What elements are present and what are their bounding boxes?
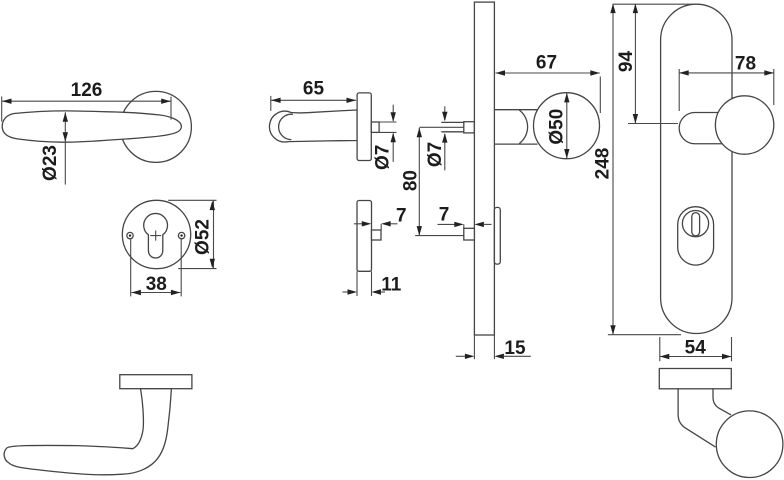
svg-text:94: 94 <box>616 51 637 73</box>
svg-text:7: 7 <box>396 206 407 227</box>
dim 15 left arrow <box>465 354 475 359</box>
dim 67 left arrow <box>496 70 506 75</box>
dim d52 down arrow <box>210 259 215 269</box>
dim 126 line <box>2 100 171 102</box>
keyhole slot <box>692 213 700 236</box>
dim 11 left arrow <box>348 289 358 294</box>
lever rose bar <box>120 375 192 389</box>
spindle stub D <box>371 122 379 132</box>
dim 7 E left arrow <box>362 221 372 226</box>
dim 7 F stub extension <box>463 224 465 228</box>
dim 67 right arrow <box>590 70 600 75</box>
dim 54 left arrow <box>660 354 670 359</box>
svg-text:67: 67 <box>536 53 557 74</box>
dim 15 right arrow <box>494 354 504 359</box>
grip side <box>269 110 357 142</box>
dim d7 F upper line <box>444 106 446 120</box>
svg-text:80: 80 <box>401 170 422 191</box>
dim 67 line <box>496 72 600 74</box>
svg-text:78: 78 <box>735 54 756 75</box>
dim 78 left extension <box>678 69 680 111</box>
svg-text:Ø7: Ø7 <box>425 142 446 167</box>
dim 80 bottom extension <box>415 235 464 237</box>
dim 65 left arrow <box>271 98 281 103</box>
svg-text:248: 248 <box>593 148 614 180</box>
svg-text:Ø23: Ø23 <box>40 145 61 181</box>
backplate side strip <box>474 2 494 335</box>
dim d7 F up arrow <box>442 133 447 143</box>
grip end inner arc <box>279 114 293 139</box>
euro profile cylinder hole <box>144 213 168 258</box>
dim 80 up arrow <box>417 128 422 138</box>
dim 54 left extension <box>659 337 661 361</box>
dim 15 left strip extension <box>473 335 475 359</box>
dim 126 left arrow <box>2 99 12 104</box>
rose side rect <box>357 93 371 161</box>
dim 7 E right line <box>390 223 398 225</box>
dim 7 E stub extension <box>380 224 382 230</box>
dim d7 F down arrow <box>442 112 447 122</box>
dim 126 left extension <box>1 97 3 122</box>
dim d52 line <box>213 201 215 269</box>
dim 65 line <box>271 99 356 101</box>
dim 248 line <box>612 4 614 335</box>
dim 7 E right arrow <box>381 221 391 226</box>
dim 15 right line <box>503 355 531 357</box>
svg-text:15: 15 <box>504 338 526 359</box>
dim 78 right arrow <box>764 70 774 75</box>
spindle rod <box>441 122 464 131</box>
lever body perspective <box>4 389 171 475</box>
lever body <box>2 111 181 142</box>
dim 248 up arrow <box>610 4 615 14</box>
dim 126 right arrow <box>161 99 171 104</box>
knob rose bar <box>659 369 731 389</box>
knob neck side <box>494 110 537 144</box>
dim d23 up arrow <box>63 112 68 122</box>
spindle flange <box>464 122 475 133</box>
dim d7 D upper line <box>392 105 394 121</box>
dim 94 up arrow <box>633 4 638 14</box>
dim 94 down arrow <box>633 114 638 124</box>
dim 94 line <box>634 4 636 123</box>
dim d7 D up arrow <box>391 133 396 143</box>
dim d50 line <box>566 94 568 159</box>
knob neck perspective right edge <box>713 388 731 415</box>
dim 65 right arrow <box>347 98 357 103</box>
security cylinder oval <box>678 207 714 265</box>
cylinder bump side <box>494 207 500 264</box>
dim d52 bottom extension <box>178 268 216 270</box>
dim 80 top extension <box>419 126 464 128</box>
dim 80 line <box>418 128 420 235</box>
screw right <box>178 232 184 238</box>
dim d50 up arrow <box>564 93 569 103</box>
dim d52 top extension <box>168 199 216 201</box>
dim 78 line <box>679 72 774 74</box>
dim 248 bottom extension <box>608 334 681 336</box>
dim 7 F right line <box>483 223 491 225</box>
dim d7 D bottom extension <box>379 131 396 133</box>
dim d7 D top extension <box>379 121 396 123</box>
dim 248 down arrow <box>610 325 615 335</box>
rosette circle <box>122 200 190 268</box>
dim 54 right arrow <box>722 354 732 359</box>
svg-text:38: 38 <box>146 274 167 295</box>
cylinder stub E <box>372 230 382 240</box>
svg-text:7: 7 <box>439 205 450 226</box>
knob ball side <box>534 93 600 159</box>
dim 7 E left line <box>354 223 363 225</box>
svg-text:Ø7: Ø7 <box>372 145 393 170</box>
dim 54 line <box>660 356 732 358</box>
dim 94 bottom extension <box>628 123 678 125</box>
rose circle <box>120 91 191 162</box>
dim 67 right extension <box>599 77 601 114</box>
dim 38 left extension <box>130 239 132 296</box>
svg-text:65: 65 <box>303 79 325 100</box>
dim 7 F left line <box>438 223 456 225</box>
svg-text:126: 126 <box>71 80 103 101</box>
dim 11 left extension <box>356 271 358 296</box>
dim 11 left line <box>343 291 349 293</box>
center cross <box>150 231 161 241</box>
dim d7 D down arrow <box>391 112 396 122</box>
dim 11 right extension <box>371 271 373 296</box>
svg-text:Ø50: Ø50 <box>547 109 568 145</box>
screw left <box>127 232 133 238</box>
dim d7 F lower line <box>444 134 446 171</box>
knob neck perspective left edge <box>678 388 715 447</box>
dim 38 left arrow <box>131 290 141 295</box>
dim 38 line <box>131 292 180 294</box>
dim 248 top extension <box>613 3 693 5</box>
knob neck transition arc <box>519 110 527 144</box>
dim 7 F left arrow <box>454 222 464 227</box>
knob ball front <box>715 96 773 154</box>
dim 7 F right arrow <box>474 222 484 227</box>
dim 78 right extension <box>773 69 775 105</box>
dim d7 D lower line <box>392 134 394 162</box>
dim 38 right extension <box>180 239 182 296</box>
dim 65 left extension <box>270 96 272 111</box>
dim 126 right extension <box>170 97 172 120</box>
dim 11 right line <box>380 291 385 293</box>
svg-text:Ø52: Ø52 <box>193 219 214 255</box>
dim d50 down arrow <box>564 149 569 159</box>
svg-text:11: 11 <box>381 275 402 296</box>
lower fixing stub <box>464 228 475 240</box>
dim 15 left line <box>456 355 466 357</box>
knob ball perspective <box>716 411 783 478</box>
dim 11 right arrow <box>372 289 382 294</box>
cylinder circle <box>682 211 708 237</box>
plate body <box>661 4 732 333</box>
rose side rect E <box>357 201 372 272</box>
knob neck front <box>679 113 722 144</box>
dim 78 left arrow <box>679 70 689 75</box>
dim 80 down arrow <box>417 226 422 236</box>
dim 54 right extension <box>731 337 733 361</box>
dim d23 down arrow <box>63 132 68 142</box>
dim d23 line <box>64 112 66 184</box>
dim 38 right arrow <box>171 290 181 295</box>
svg-text:54: 54 <box>685 338 707 359</box>
dim 15 right strip extension <box>493 335 495 359</box>
dim d52 up arrow <box>210 201 215 211</box>
